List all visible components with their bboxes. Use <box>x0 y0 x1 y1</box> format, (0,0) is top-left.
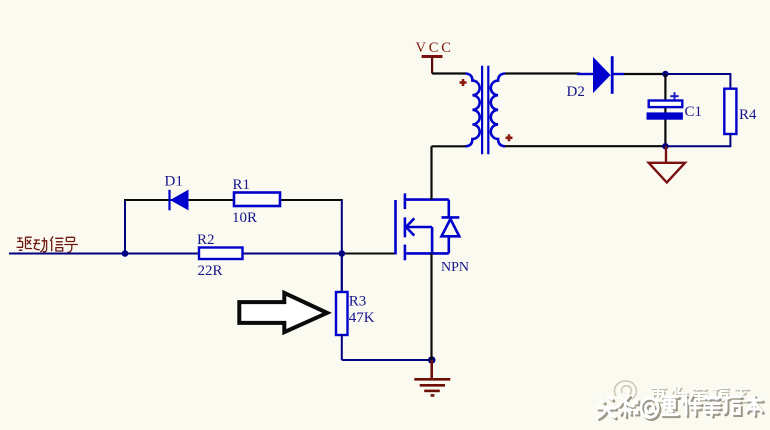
svg-text:47K: 47K <box>349 310 375 326</box>
transformer T1 <box>466 66 506 154</box>
node junction dot left <box>122 250 129 257</box>
node junction bottom right <box>662 143 668 149</box>
wire top junction to R4 <box>665 74 730 89</box>
power VCC <box>416 40 454 74</box>
svg-text:10R: 10R <box>232 210 257 226</box>
svg-text:NPN: NPN <box>441 260 469 275</box>
wire MOSFET source vertical <box>430 253 432 360</box>
wire D2 to top junction <box>624 73 665 75</box>
annotation arrow <box>239 293 327 332</box>
wire upper loop horizontal <box>124 199 343 201</box>
svg-text:22R: 22R <box>198 263 223 279</box>
wire VCC to transformer <box>432 72 466 74</box>
node junction dot bottom <box>428 356 436 364</box>
left winding <box>466 74 480 147</box>
wire R3 bottom lead <box>341 335 343 360</box>
node junction dot mid <box>339 250 346 257</box>
polarity plus primary <box>460 79 467 86</box>
resistor R1 <box>234 193 280 207</box>
wire left vertical <box>124 199 126 254</box>
wire secondary top to D2 <box>505 72 580 74</box>
right winding <box>491 74 505 147</box>
ground (power ground triangle) <box>649 146 685 182</box>
watermark logo arc faint <box>614 381 636 399</box>
node 驱动信号 (drive signal label) <box>17 236 78 252</box>
wire R3 top lead <box>341 254 343 294</box>
wire bottom horizontal to ground <box>342 359 432 361</box>
polarity plus secondary <box>506 134 513 141</box>
wire transformer bottom-left <box>432 145 466 147</box>
svg-text:D2: D2 <box>567 84 585 100</box>
resistor R2 <box>199 248 243 260</box>
resistor R3 <box>336 292 348 335</box>
wire R4 bottom <box>665 134 730 146</box>
svg-text:D1: D1 <box>165 174 183 190</box>
wire main drive horizontal <box>9 253 342 255</box>
resistor R4 <box>724 89 736 134</box>
svg-text:VCC: VCC <box>416 40 454 56</box>
ground (signal ground under MOSFET) <box>414 360 450 395</box>
svg-text:R1: R1 <box>233 177 251 193</box>
wire MOSFET drain vertical <box>430 146 432 199</box>
transistor Q1 MOSFET <box>396 193 460 260</box>
svg-text:R3: R3 <box>349 294 367 310</box>
wire secondary bottom <box>505 145 665 147</box>
diode D2 <box>577 56 624 94</box>
node junction top right <box>662 71 668 77</box>
svg-text:R4: R4 <box>739 107 757 123</box>
svg-text:R2: R2 <box>197 232 215 248</box>
diode D1 <box>170 190 189 211</box>
wire right vertical of loop <box>341 200 343 292</box>
core lines <box>481 66 483 154</box>
capacitor C1 <box>647 74 682 146</box>
svg-text:C1: C1 <box>685 104 703 120</box>
wire gate segment (black) <box>342 253 396 255</box>
